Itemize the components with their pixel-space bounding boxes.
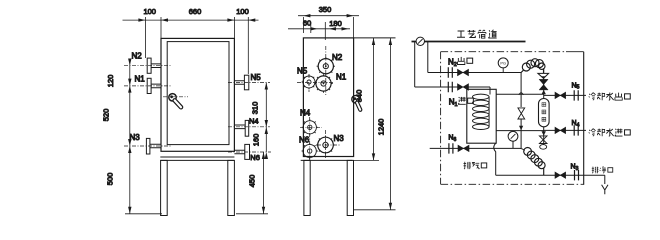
svg-text:N2: N2 bbox=[448, 57, 457, 68]
svg-text:N4: N4 bbox=[572, 120, 580, 128]
nozzle N5 front bbox=[228, 75, 270, 90]
valve on N2 inlet bbox=[458, 84, 469, 90]
svg-text:60: 60 bbox=[303, 19, 311, 28]
process pipe top bbox=[412, 41, 526, 43]
dim line 1240 bbox=[389, 38, 391, 210]
flange on N2 inlet bbox=[448, 82, 452, 92]
wire drop to N2 outlet line bbox=[427, 42, 429, 73]
internal coil spring bbox=[473, 89, 491, 129]
svg-text:N2: N2 bbox=[132, 52, 143, 61]
nozzle N6 side gear circle bbox=[302, 143, 318, 159]
cooling water out branch bbox=[544, 94, 586, 96]
boundary dash-dot box bbox=[441, 52, 584, 185]
svg-text:160: 160 bbox=[252, 134, 261, 147]
wire drop to N2 inlet line bbox=[414, 42, 416, 88]
svg-text:450: 450 bbox=[248, 175, 257, 188]
right vertical dimension line 450 bbox=[263, 152, 265, 214]
label N2出口 bbox=[448, 57, 473, 68]
nozzle N6 front bbox=[228, 144, 271, 159]
hourglass valve upper column bbox=[539, 79, 548, 90]
dim line 840 bbox=[373, 38, 375, 160]
valve on N6 drain bbox=[458, 145, 469, 151]
N2 inlet pipe bbox=[415, 87, 490, 89]
flange on cooling in bbox=[574, 125, 578, 135]
svg-text:520: 520 bbox=[102, 109, 111, 122]
flame arrester capsule bbox=[539, 99, 550, 127]
label N1进口 bbox=[449, 97, 474, 108]
N2 outlet pipe bbox=[428, 72, 521, 74]
bypass drop line bbox=[520, 73, 522, 149]
svg-text:350: 350 bbox=[319, 5, 332, 14]
label 工艺管道 bbox=[457, 30, 497, 38]
svg-text:N5: N5 bbox=[297, 67, 308, 76]
label 冷却水进口 bbox=[589, 129, 631, 137]
nozzle N1 side circle bbox=[314, 74, 332, 92]
funnel Y bbox=[602, 185, 608, 194]
label 排残口 bbox=[464, 162, 487, 169]
svg-text:500: 500 bbox=[106, 173, 115, 186]
valve on cooling out bbox=[555, 92, 566, 98]
svg-text:310: 310 bbox=[251, 102, 260, 115]
tank shell outer bbox=[161, 38, 234, 151]
side top dim 350 bbox=[303, 17, 353, 38]
svg-text:N4: N4 bbox=[249, 117, 259, 126]
nozzle N4 front bbox=[228, 120, 270, 136]
top line extension to dims bbox=[354, 37, 396, 39]
svg-text:N1: N1 bbox=[449, 97, 458, 108]
vent dome bbox=[540, 145, 547, 150]
tank shell inner (jacket) bbox=[167, 42, 229, 145]
svg-text:N4: N4 bbox=[300, 109, 311, 118]
svg-text:N6: N6 bbox=[250, 153, 260, 162]
battery limit right edge bbox=[583, 52, 585, 185]
vapor line to column bbox=[496, 93, 544, 95]
svg-text:180: 180 bbox=[329, 19, 342, 28]
1240 extension tick bbox=[354, 209, 396, 211]
svg-text:N1: N1 bbox=[135, 75, 146, 84]
svg-text:N6: N6 bbox=[299, 136, 310, 145]
side second dim 60/180 bbox=[311, 22, 326, 40]
leg bottom extension ticks bbox=[125, 213, 268, 215]
drain drop and funnel bbox=[604, 175, 606, 184]
side stand plate bbox=[301, 159, 353, 161]
nozzle N5 side gear circle bbox=[297, 74, 334, 92]
instrument circle on process pipe bbox=[416, 37, 424, 45]
svg-text:120: 120 bbox=[106, 75, 115, 88]
label 冷却水出口 bbox=[589, 93, 631, 101]
wire column lower bbox=[543, 127, 545, 145]
svg-text:N3: N3 bbox=[130, 133, 141, 142]
tank bottom drop pipe bbox=[494, 143, 496, 175]
capsule chars bbox=[542, 103, 546, 122]
thermometer instrument bbox=[508, 131, 518, 148]
840 extension tick bbox=[354, 159, 379, 161]
vertical centerline through N2 N1 bbox=[325, 46, 327, 95]
leg left side bbox=[304, 160, 310, 215]
jacket return line bbox=[430, 148, 525, 151]
agitator handle side bbox=[352, 95, 360, 109]
tank box in schematic bbox=[467, 89, 496, 143]
left vertical dimension line bbox=[129, 59, 131, 214]
bypass hourglass valve bbox=[518, 108, 525, 119]
svg-text:100: 100 bbox=[236, 7, 249, 16]
svg-text:660: 660 bbox=[189, 7, 202, 16]
nozzle N2 side circle bbox=[317, 57, 335, 75]
valve on bottom drain bbox=[555, 172, 566, 178]
stand top plate bbox=[160, 157, 234, 160]
jacket inlet line bbox=[496, 130, 544, 132]
svg-text:N6: N6 bbox=[448, 135, 456, 143]
bottom drain pipe bbox=[496, 174, 605, 176]
flange on bottom drain bbox=[575, 170, 579, 180]
svg-text:N1: N1 bbox=[336, 73, 347, 82]
leg right side bbox=[347, 160, 353, 215]
flow arrow up bbox=[542, 90, 546, 94]
valve on cooling in bbox=[555, 127, 566, 133]
label 排净口 bbox=[592, 167, 613, 174]
pigtail coil bottom bbox=[524, 148, 545, 176]
wire column upper bbox=[543, 78, 545, 98]
svg-text:N5: N5 bbox=[572, 82, 580, 90]
svg-text:100: 100 bbox=[143, 7, 156, 16]
svg-text:PG: PG bbox=[500, 61, 506, 66]
top dimension extension lines bbox=[145, 17, 248, 74]
svg-text:N2: N2 bbox=[332, 53, 343, 62]
nozzle N3 front bbox=[124, 138, 172, 154]
hourglass valve lower column bbox=[539, 136, 547, 144]
svg-text:N5: N5 bbox=[251, 73, 262, 82]
right vertical dimension line 310/160 bbox=[265, 83, 267, 153]
nozzle N1 front bbox=[124, 78, 172, 93]
svg-text:1240: 1240 bbox=[377, 119, 386, 136]
line hop over vapor line bbox=[519, 93, 523, 95]
bypass flow arrow bbox=[519, 126, 523, 130]
leg left front bbox=[161, 160, 168, 215]
flange on N6 drain bbox=[449, 143, 453, 153]
flange on N2 outlet bbox=[448, 67, 452, 77]
nozzle N3 side circle bbox=[310, 117, 341, 160]
flange on cooling out bbox=[574, 90, 578, 100]
flow arrow down bbox=[542, 131, 546, 135]
valve on N2 outlet bbox=[458, 69, 469, 75]
nozzle N4 side gear circle bbox=[300, 119, 322, 135]
cooling water in branch bbox=[544, 129, 586, 131]
side view box bbox=[303, 38, 353, 157]
nozzle N2 front bbox=[124, 58, 172, 73]
agitator handle front bbox=[163, 94, 188, 108]
pigtail coil top bbox=[521, 59, 545, 74]
pressure gauge PG bbox=[498, 58, 508, 73]
svg-text:N3: N3 bbox=[334, 134, 345, 143]
leg right front bbox=[228, 160, 235, 215]
top dimension line 100-660-100 bbox=[123, 19, 259, 21]
funnel triangle on column bbox=[538, 69, 549, 79]
